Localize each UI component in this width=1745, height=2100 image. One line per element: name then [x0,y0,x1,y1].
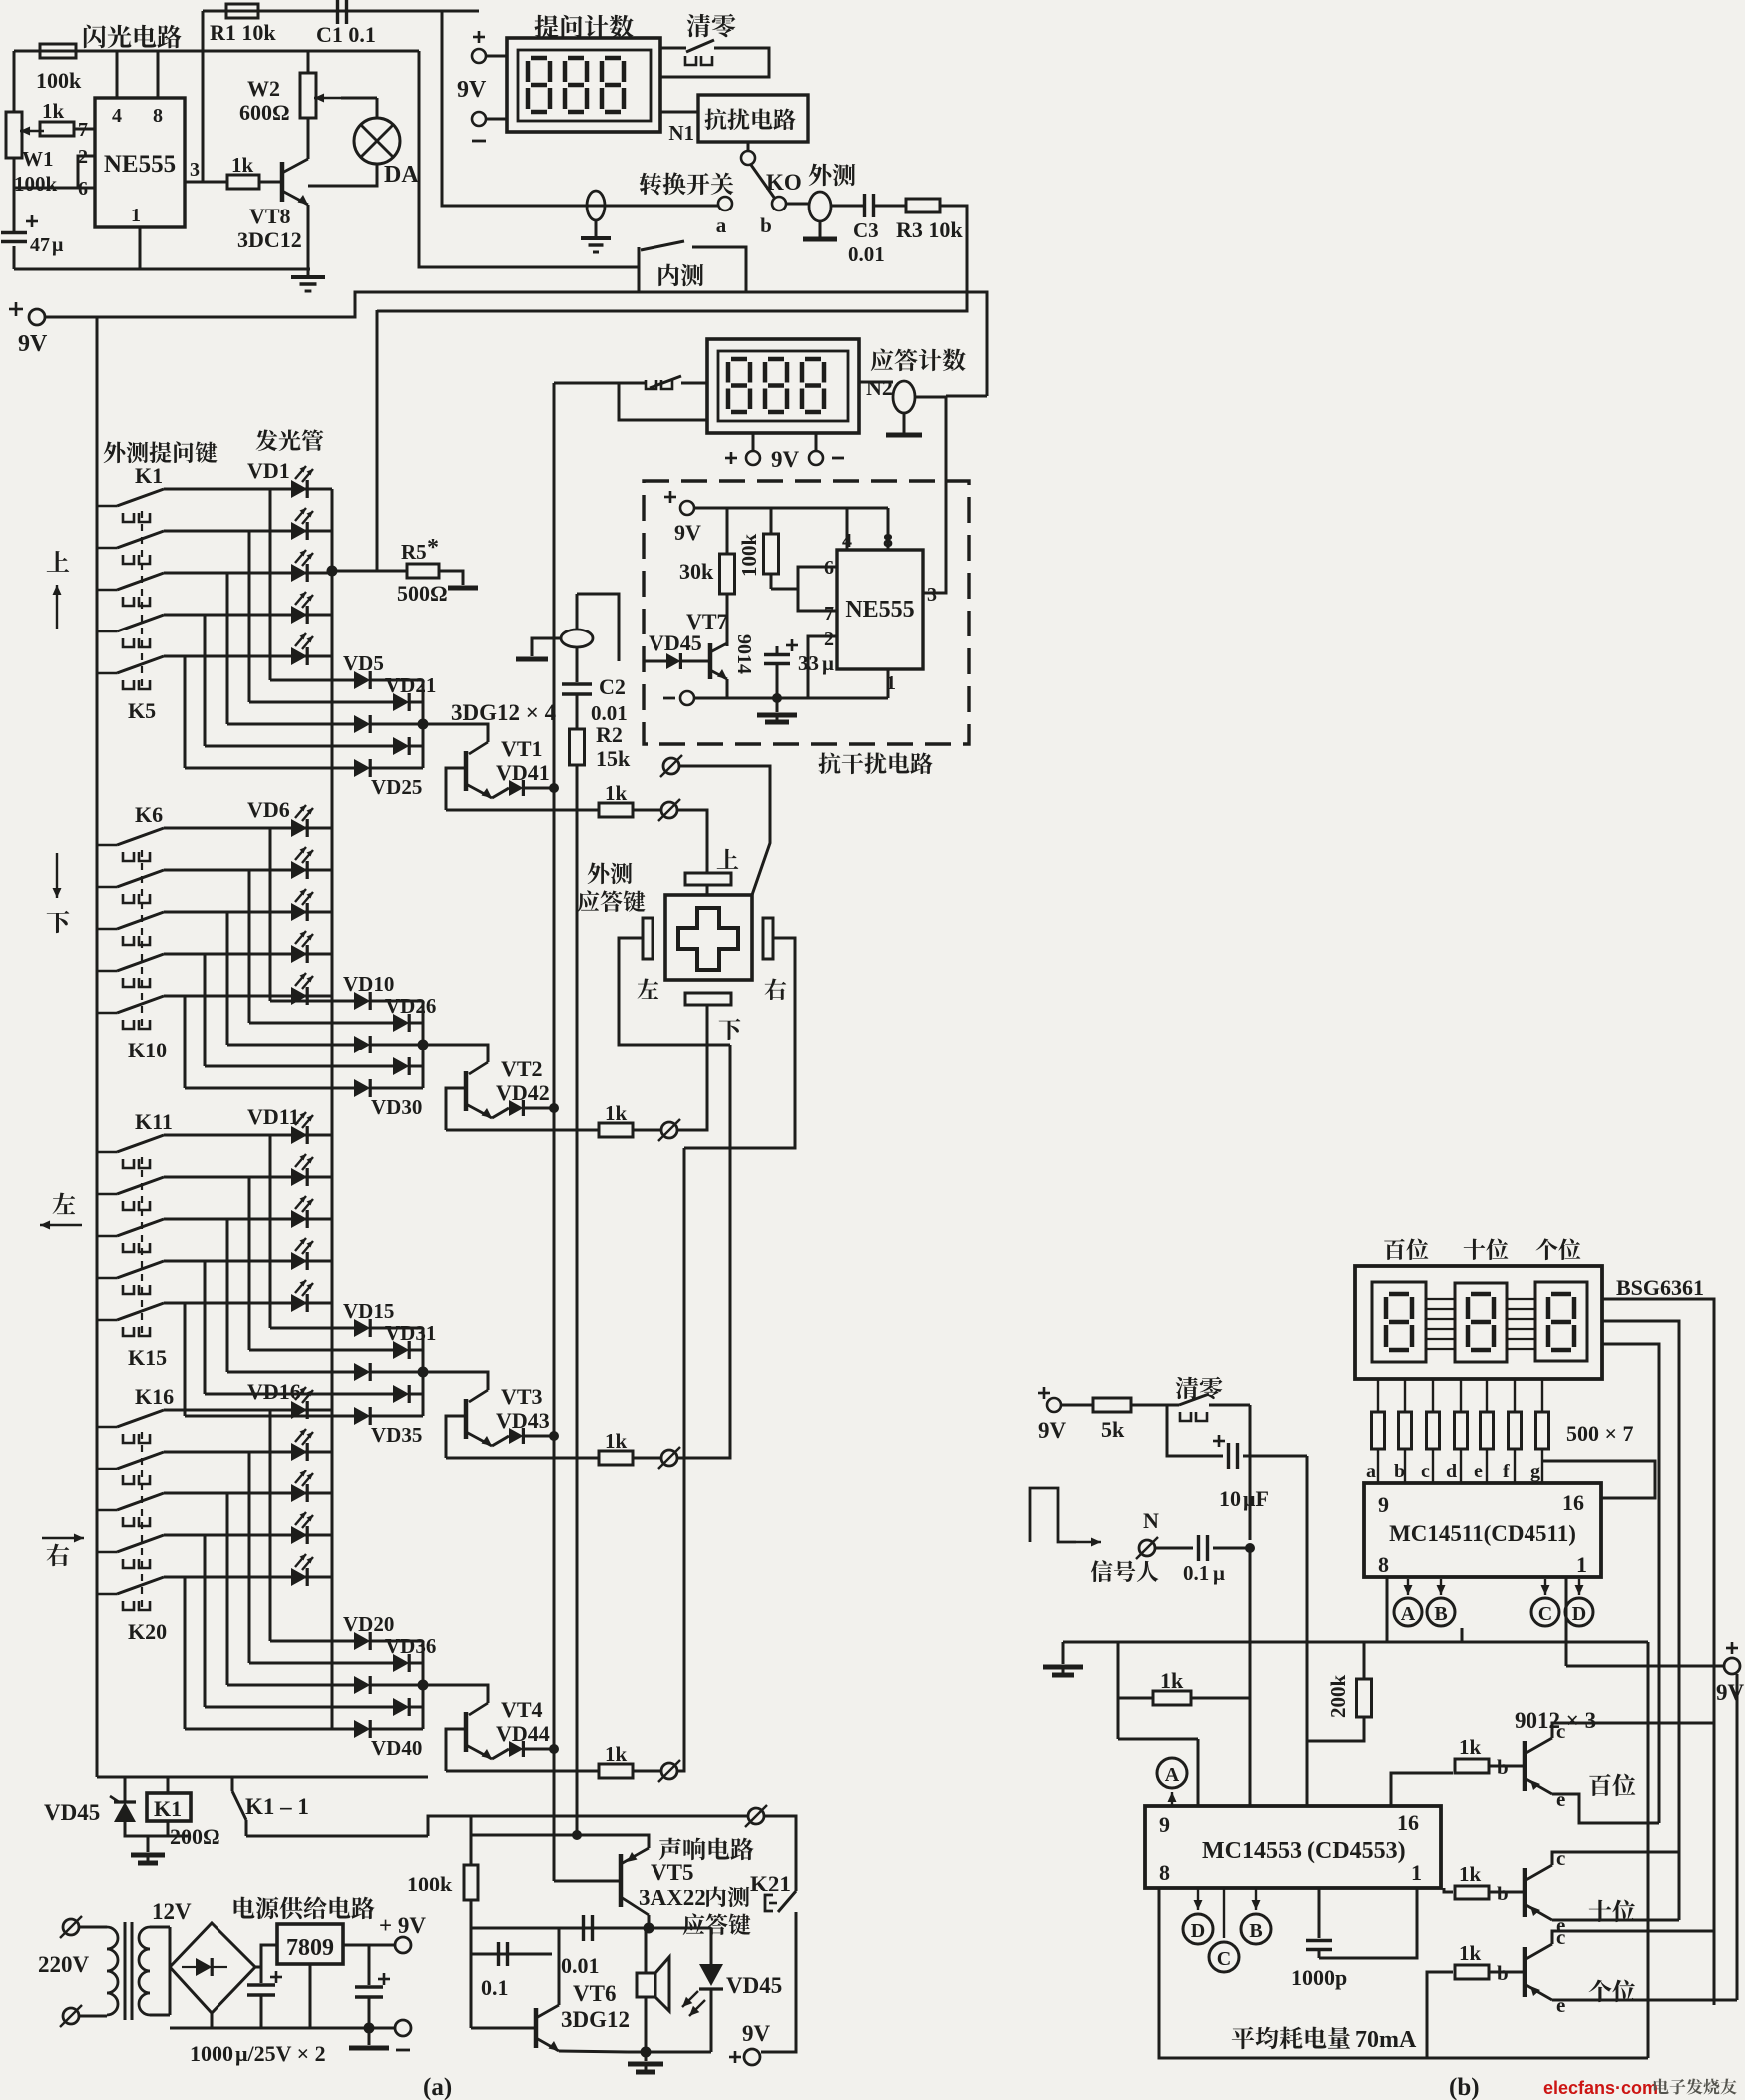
IC U1 NE555 flash oscillator [95,98,185,227]
resistor 1k row [599,1123,633,1137]
switch K18 blade [97,1509,117,1512]
LED VD row 3 [291,1484,307,1502]
wire base loop [446,1088,466,1130]
diode matrix wires to VT stage [270,1000,354,1003]
switch K10 blade [97,1012,117,1015]
LED VD row 4 [291,945,307,963]
connector loop on changeover wire [587,191,605,220]
connector loop N2 [893,381,915,413]
wire +9V rail part b [1566,1665,1724,1668]
resistor 1k base VT8 [227,175,259,189]
svg-text:7809: 7809 [286,1935,334,1961]
wire to sound circuit [428,1816,747,1836]
ground relay [147,1836,150,1852]
contact a [718,197,732,210]
resistor 1k driver 个位 [1455,1965,1489,1979]
switch K6 blade [97,844,117,847]
wire switch row [164,1134,332,1137]
transistor 9012 百位 [1523,1741,1527,1791]
svg-text:K15: K15 [128,1345,167,1370]
ground below 33u [776,698,779,712]
wire +9V down [1736,1674,1739,2000]
digit 2 [768,357,784,362]
multiplex link lines [1426,1298,1455,1300]
wire bottom power rail [211,2013,214,2028]
capacitor 1000p [1318,1888,1321,1938]
ground after R5 [439,571,463,585]
svg-text:VD11: VD11 [247,1104,300,1129]
dashed mechanical link [141,511,143,686]
ground below external loop [819,221,822,237]
svg-text:VD1: VD1 [247,458,290,483]
resistor 1k row [599,803,633,817]
wire bottom rail inside box [694,697,888,700]
wire clear net down to MC14553 [1249,1548,1252,1806]
wire left bus down [96,317,99,1777]
LED VD row 2 [291,522,307,540]
svg-text:0.01: 0.01 [561,1953,600,1978]
external test connector loop [786,203,809,206]
diode VD21-row4 [393,737,409,755]
wire common to key frame [680,766,770,895]
matrix drop wire [184,1577,187,1729]
dashed mechanical link [141,850,143,1026]
wire collector VT8 to W2 [307,118,310,159]
wire switch row [164,1451,332,1454]
label clear 清零 part b [1176,1377,1199,1399]
wire to center answer bus [554,382,619,385]
svg-text:K21: K21 [750,1872,791,1896]
svg-text:C: C [1538,1603,1552,1625]
label 抗干扰电路 [819,752,841,774]
diode VD21-row2 [393,693,409,711]
label digit 十位 [1589,1900,1611,1922]
capacitor C2 0.01 [576,647,579,682]
wire top feedback rail y=11 [203,10,479,13]
wire 10uF net down to MC14553 [1306,1456,1309,1806]
matrix drop wire [248,531,251,702]
terminal sound top [748,1808,764,1824]
svg-text:70mA: 70mA [1355,2027,1417,2053]
direction label left 左 [53,1193,76,1214]
wire VT6 collector up [558,1928,561,2005]
ground stub left of loop [532,638,561,656]
svg-text:(a): (a) [423,2074,452,2100]
svg-text:VD40: VD40 [371,1736,422,1760]
wire select line units [1602,1344,1659,1823]
wire A feed [1118,1738,1198,1741]
lamp DA [341,97,377,100]
resistor 100k sound [464,1865,478,1900]
svg-text:16: 16 [1397,1810,1419,1835]
wire pin4 stub [846,508,849,550]
wire DA bottom to VT8 collector [308,164,377,186]
svg-text:8: 8 [1159,1860,1170,1885]
label digit 百位 [1589,1774,1611,1796]
svg-text:g: g [1530,1461,1540,1482]
wire bottom to ground rail vertical [1647,1642,1650,2058]
svg-text:K16: K16 [135,1384,174,1409]
svg-text:1k: 1k [1160,1668,1184,1693]
LED VD row 1 [291,1126,307,1144]
capacitor C1 0.1 [336,0,339,24]
IC MC14553 CD4553 box [1145,1806,1441,1888]
capacitor 10uF [1227,1443,1230,1469]
wire left key drop to VT3 row [678,1045,730,1458]
LED cathode bus [331,1135,334,1303]
wire switch row [164,572,332,575]
wire switch row [164,827,332,830]
wire pin3 out [185,181,227,184]
svg-text:BSG6361: BSG6361 [1616,1275,1704,1300]
wire CD4511 pin16 stub [1565,1577,1568,1666]
wire select line tens [1602,1321,1679,1920]
switch K14 blade [97,1277,117,1280]
diode matrix wires to VT stage [270,1640,354,1643]
svg-text:9V: 9V [771,447,800,472]
svg-text:D: D [1191,1920,1205,1942]
svg-text:A: A [1165,1764,1180,1786]
wire base loop [446,1416,466,1458]
LED VD row 3 [291,1210,307,1228]
wire diode to answer bus [525,1435,554,1438]
matrix drop wire [204,1535,207,1707]
label signal person 信号人 [1091,1560,1112,1582]
matrix drop wire [269,489,272,680]
transformer core [124,1922,127,2020]
svg-text:3DC12: 3DC12 [237,227,302,252]
cross symbol [678,908,738,970]
diode matrix wires to VT stage [270,679,354,682]
matrix drop wire [184,1303,187,1416]
svg-text:D: D [1572,1603,1586,1625]
svg-text:VD45: VD45 [649,630,702,655]
diode VD44 emitter [492,1749,509,1759]
wire top rail inside box [694,507,888,510]
wire bottom rail flash y=270 [13,246,16,269]
svg-text:100k: 100k [14,172,58,196]
diode VD21-row1 [354,671,370,689]
matrix drop wire [204,954,207,1066]
dashed box anti-interference 抗干扰电路 [644,481,969,744]
digit 3 [805,357,821,362]
svg-text:1: 1 [1576,1552,1587,1577]
label digit 个位 [1589,1980,1612,2003]
capacitor 1000u output [368,1945,371,1985]
svg-text:1k: 1k [605,1742,628,1766]
label LED group 发光管 [256,429,278,451]
wire +V rail y=51 [14,50,419,53]
wire relay top rail [97,1776,428,1779]
svg-text:N1: N1 [668,121,694,145]
svg-text:7: 7 [78,119,88,141]
switch K3 blade [97,589,117,592]
svg-text:9V: 9V [1716,1680,1745,1705]
digit box hundreds [1372,1282,1426,1362]
pulse input symbol [1030,1488,1076,1542]
switch K8 blade [97,928,117,931]
diode VD31-row1 [354,1319,370,1337]
matrix drop wire [226,1219,229,1372]
transformer primary [107,1927,118,1949]
digit 1 [531,56,547,61]
svg-text:8: 8 [1378,1552,1389,1577]
svg-text:(CD4553): (CD4553) [1307,1838,1406,1864]
wire 100k bottom to pins 6-7 [770,574,773,589]
label flash circuit 闪光电路 [84,25,106,49]
label question keys 外测提问键 [104,441,126,463]
switch K19 blade [97,1551,117,1554]
wire g feedback loop [1542,1461,1655,1498]
svg-text:VT2: VT2 [501,1056,543,1081]
terminal AC top [63,1919,79,1935]
display N2 inner box [718,351,848,421]
diode VD36-row4 [393,1698,409,1716]
resistor 5k [1093,1398,1131,1412]
svg-text:1k: 1k [1459,1735,1482,1759]
diode VD31-row3 [354,1363,370,1381]
ground below N2 loop [903,413,906,433]
wire 0.1 row [471,1953,552,1956]
svg-text:VD45: VD45 [44,1800,100,1825]
wire switch row [164,1260,332,1263]
wire pin4 stub [116,51,119,98]
junction R5 [327,566,338,577]
svg-text:μ: μ [822,651,834,675]
diode VD26-row4 [393,1057,409,1075]
wire driver1 collector [1552,1723,1714,1738]
resistor 100k vertical [770,508,773,534]
wire diode to answer bus [525,787,554,790]
display inner box [518,50,651,121]
matrix drop wire [269,1135,272,1328]
svg-text:d: d [1446,1461,1457,1482]
potentiometer W2 600 [300,73,316,118]
wire relay bottoms to ground [125,1828,190,1836]
resistor 1k driver 十位 [1455,1886,1489,1899]
diode VD26-row2 [393,1014,409,1032]
svg-text:C3: C3 [853,218,879,242]
terminal +9V sound [744,2049,760,2065]
svg-text:VT5: VT5 [651,1860,693,1885]
transistor 9012 个位 [1523,1947,1527,1997]
arrows to C D [1544,1579,1546,1595]
diode VD31-row5 [354,1407,370,1425]
wire driver1 emitter [1552,1794,1659,1823]
regulator 7809 [277,1924,343,1964]
svg-text:VD16: VD16 [247,1379,301,1404]
label answer counter 应答计数 [871,349,894,372]
label hundreds 百位 [1384,1239,1405,1260]
wire switch row [164,869,332,872]
wire to terminal [633,1457,660,1460]
wire 10uF to right vertical [1243,1455,1307,1458]
wire matrix to VT2 [423,1045,488,1062]
clear switch loop [660,47,686,50]
matrix drop wire [248,870,251,1023]
transistor VT8 3DC12 [280,162,285,202]
wire driver2 emitter [1552,1919,1679,1922]
display BSG6361 outer box [1355,1266,1602,1379]
svg-text:3DG12 × 4: 3DG12 × 4 [451,700,557,725]
svg-text:VD6: VD6 [247,797,290,822]
wire switch row [164,911,332,914]
svg-text:500Ω: 500Ω [397,581,448,606]
svg-text:K1: K1 [154,1796,182,1821]
routing box around A B [1387,1577,1462,1642]
svg-text:VT4: VT4 [501,1697,543,1722]
wire pin1 stub [887,669,890,698]
label question counter 提问计数 [535,15,559,39]
svg-text:8: 8 [153,105,163,127]
circle C output [1209,1942,1239,1972]
label external test 外测 [809,164,832,187]
bridge rectifier [170,1923,255,2013]
svg-text:*: * [427,535,439,561]
svg-text:1k: 1k [1459,1941,1482,1965]
wire speaker bottom [645,1997,648,2052]
wire ground rail long [1063,1641,1648,1644]
svg-text:1000: 1000 [190,2041,233,2066]
LED VD row 4 [291,1252,307,1270]
matrix drop wire [269,828,272,1001]
svg-text:4: 4 [112,105,122,127]
circle output C [1531,1598,1559,1626]
resistor R1 10k [226,4,258,18]
diode VD36-row5 [354,1720,370,1738]
circle A input [1157,1758,1187,1788]
wire MC14553 pin8 bottom loop [1159,1888,1648,2058]
wire switch row [164,995,332,998]
svg-text:100k: 100k [36,68,82,93]
key contact right 右 [763,918,773,959]
svg-text:5k: 5k [1101,1417,1125,1442]
LED cathode bus [331,489,334,656]
wire to terminal [633,809,660,812]
bottom rail sound [628,2051,711,2054]
resistor 1k to pin7 [40,122,74,136]
svg-text:3DG12: 3DG12 [561,2007,630,2032]
wire answer bus vertical [553,383,556,1881]
svg-text:+ 9V: + 9V [379,1913,426,1938]
diode VD26-row1 [354,992,370,1010]
capacitor 33u electrolytic [776,646,779,654]
diode matrix collect vertical [422,1001,425,1088]
svg-text:1000p: 1000p [1291,1965,1347,1990]
matrix drop wire [184,656,187,768]
svg-text:NE555: NE555 [104,151,176,178]
svg-text:B: B [1434,1603,1447,1625]
svg-text:KO: KO [766,170,802,195]
matrix drop wire [248,1177,251,1350]
svg-text:15k: 15k [596,746,631,771]
diode matrix collect vertical [422,1641,425,1729]
connector loop C2 net [576,594,579,630]
switch K11 blade [97,1151,117,1154]
wire matrix to VT3 [423,1372,488,1390]
svg-text:1k: 1k [605,781,628,805]
svg-text:c: c [1556,1846,1565,1870]
svg-text:0.1: 0.1 [481,1975,509,2000]
svg-text:33: 33 [798,651,819,675]
capacitor 0.01 sound [582,1915,585,1941]
circle output D [1565,1598,1593,1626]
wire 30k to VT7 collector [726,594,729,646]
diode VD26-row5 [354,1079,370,1097]
svg-text:12V: 12V [152,1899,192,1924]
wire pin3 stub [923,592,946,595]
switch K15 blade [97,1319,117,1322]
wire 7809 output [343,1944,395,1947]
svg-text:VD30: VD30 [371,1095,422,1119]
svg-text:30k: 30k [679,559,714,584]
wire matrix to VT4 [423,1685,488,1703]
wire MC14553 pin16 to first driver [1391,1773,1453,1806]
svg-text:9V: 9V [674,520,701,545]
dashed mechanical link [141,1432,143,1607]
wire 7809 ground pin [309,1964,312,2028]
svg-text:0.1: 0.1 [1183,1561,1209,1585]
svg-text:μ: μ [52,234,64,256]
svg-text:c: c [1421,1461,1430,1482]
matrix drop wire [204,615,207,746]
terminal +9V part b source [1038,1392,1050,1395]
LED VD row 1 [291,1401,307,1419]
potentiometer W1 100k [6,112,22,158]
svg-text:9: 9 [1378,1492,1389,1517]
wire to 5k [1061,1404,1093,1407]
svg-text:47: 47 [30,234,50,256]
wire secondary to bridge [150,1926,170,1929]
wire switch row [164,614,332,617]
LED VD row 2 [291,1443,307,1461]
svg-text:K5: K5 [128,698,156,723]
digit box tens [1455,1283,1507,1362]
wire pins 2-6 link [78,156,95,188]
LED VD row 3 [291,564,307,582]
wire VT5 base [554,1880,621,1883]
svg-text:R5: R5 [401,540,427,564]
svg-text:0.01: 0.01 [848,242,885,266]
label average current 平均耗电量 70mA [1232,2027,1255,2050]
svg-text:b: b [760,213,772,237]
transistor VT6 3DG12 [471,2027,536,2030]
LED VD row 5 [291,1568,307,1586]
clear switch part b [1149,1404,1179,1407]
svg-text:C1 0.1: C1 0.1 [316,22,376,47]
LED VD row 2 [291,861,307,879]
svg-text:W1: W1 [22,147,54,171]
diode VD31-row4 [393,1385,409,1403]
svg-text:c: c [1556,1925,1565,1949]
wire driver3 collector [1552,1931,1714,1944]
svg-text:C: C [1217,1948,1231,1970]
diode VD36-row3 [354,1676,370,1694]
anti-interference box N1 抗扰电路 [698,95,808,142]
svg-text:2: 2 [824,629,834,650]
svg-text:R1 10k: R1 10k [210,20,276,45]
wire trigger net ellipse bend to VD45 [577,594,619,661]
label units 个位 [1536,1238,1558,1260]
diode VD21-row5 [354,759,370,777]
digit 1 [731,357,747,362]
ground power [368,2028,371,2045]
terminal row [661,1450,677,1466]
svg-text:K20: K20 [128,1619,167,1644]
LED VD45 indicator [710,1928,713,1964]
resistor 1k part b [1118,1697,1153,1700]
svg-text:VD45: VD45 [726,1973,782,1998]
